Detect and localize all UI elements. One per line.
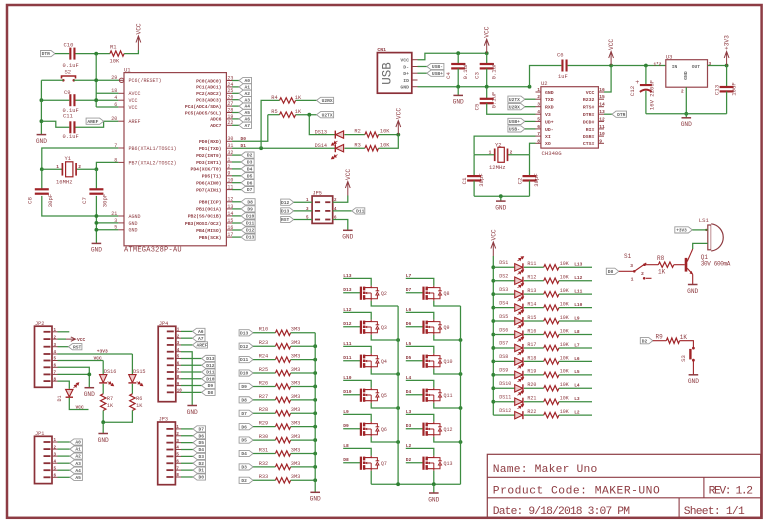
svg-text:ADC6: ADC6 <box>210 117 221 123</box>
svg-text:R11: R11 <box>527 261 536 267</box>
svg-text:18: 18 <box>111 88 117 94</box>
svg-text:PB6(XTAL1/TOSC1): PB6(XTAL1/TOSC1) <box>129 146 177 152</box>
switch S3 pushbutton <box>692 347 695 350</box>
svg-text:R29: R29 <box>259 421 269 427</box>
svg-text:D5: D5 <box>406 355 412 361</box>
junction <box>491 333 495 337</box>
transistor Q6 n-mosfet <box>360 423 362 436</box>
svg-text:D12: D12 <box>240 344 249 350</box>
wire <box>371 335 398 340</box>
svg-text:10K: 10K <box>560 315 569 321</box>
wire <box>524 320 544 322</box>
svg-text:A7: A7 <box>244 123 250 129</box>
resistor R32 3M3 <box>275 464 290 469</box>
svg-text:LS1: LS1 <box>699 217 710 224</box>
wire <box>96 222 118 224</box>
resistor R33 3M3 <box>275 478 290 483</box>
wire net VCC <box>69 398 88 410</box>
junction <box>528 85 532 89</box>
svg-text:12MHz: 12MHz <box>489 164 506 171</box>
LED DS16 <box>102 361 104 375</box>
svg-text:D10: D10 <box>343 389 352 395</box>
svg-text:4: 4 <box>114 95 117 101</box>
wire <box>333 210 352 212</box>
transistor Q10 n-mosfet <box>422 355 424 368</box>
power VCC <box>136 36 141 50</box>
svg-text:VCC: VCC <box>94 356 103 362</box>
svg-text:10K: 10K <box>380 129 390 135</box>
flag DTR <box>41 51 56 57</box>
svg-text:Y2: Y2 <box>495 142 502 149</box>
node D13 <box>181 357 202 359</box>
wire <box>619 270 635 272</box>
node D1 <box>181 469 193 471</box>
LED DS1 <box>493 266 514 268</box>
node D7 <box>232 189 241 191</box>
junction <box>307 113 311 117</box>
svg-text:Y1: Y1 <box>65 155 72 162</box>
svg-text:U2RX: U2RX <box>322 98 333 104</box>
junction <box>491 359 495 363</box>
svg-text:VCC: VCC <box>586 90 595 96</box>
wire net L13 <box>343 278 371 285</box>
junction <box>313 344 317 348</box>
svg-text:2: 2 <box>537 94 540 100</box>
svg-text:Date: 9/18/2018 3:07 PM: Date: 9/18/2018 3:07 PM <box>493 506 630 518</box>
wire <box>95 196 97 243</box>
resistor R27 3M3 <box>275 397 290 402</box>
svg-text:D6: D6 <box>247 180 253 186</box>
svg-text:L11: L11 <box>574 289 582 295</box>
svg-text:D3: D3 <box>406 423 412 429</box>
flag D2 <box>239 477 253 483</box>
svg-text:R3: R3 <box>354 142 360 148</box>
svg-text:L8: L8 <box>574 329 580 335</box>
svg-text:D4: D4 <box>241 451 247 457</box>
svg-text:AREF: AREF <box>87 119 98 125</box>
node D9 <box>181 385 202 387</box>
node AREF <box>181 344 193 346</box>
svg-text:D2: D2 <box>198 461 204 467</box>
wire <box>253 345 275 347</box>
wire <box>524 280 544 282</box>
svg-text:VCC: VCC <box>345 169 352 180</box>
svg-text:PC1(ADC1): PC1(ADC1) <box>196 85 222 91</box>
svg-text:PD7(AIN1): PD7(AIN1) <box>196 187 222 193</box>
svg-text:3: 3 <box>537 102 540 108</box>
wire <box>344 134 365 136</box>
svg-text:2: 2 <box>681 89 684 94</box>
wire <box>525 106 536 108</box>
svg-text:A0: A0 <box>75 440 81 446</box>
resistor R1 <box>110 51 124 56</box>
junction <box>459 372 463 376</box>
svg-text:L8: L8 <box>343 443 349 449</box>
LED DS15 <box>131 354 133 374</box>
svg-text:R8: R8 <box>657 255 665 262</box>
node A6 <box>181 330 193 332</box>
LED DS6 <box>493 334 514 336</box>
svg-text:PB2(SS/OC1B): PB2(SS/OC1B) <box>188 214 222 220</box>
svg-text:D8: D8 <box>247 199 253 205</box>
svg-text:U2TX: U2TX <box>509 97 520 103</box>
capacitor C6 <box>530 66 562 87</box>
flag D13 <box>239 330 253 336</box>
svg-text:JP2: JP2 <box>35 321 44 327</box>
svg-text:D11: D11 <box>246 221 255 227</box>
capacitor C5 <box>486 87 488 99</box>
svg-text:VCC: VCC <box>76 405 85 411</box>
resistor R11 10K <box>544 265 559 270</box>
wire net D6 <box>406 326 424 328</box>
resistor R7 <box>102 384 104 394</box>
wire <box>296 99 317 101</box>
title block <box>487 454 760 517</box>
svg-text:REV: 1.2: REV: 1.2 <box>709 486 753 498</box>
svg-text:S3: S3 <box>680 355 687 362</box>
svg-text:3M3: 3M3 <box>291 461 301 467</box>
svg-text:PB3(MOSI/OC2): PB3(MOSI/OC2) <box>185 221 222 227</box>
transistor Q3 n-mosfet <box>360 321 362 334</box>
junction <box>95 214 99 218</box>
wire <box>41 99 69 101</box>
svg-text:PB5(SCK): PB5(SCK) <box>199 235 222 241</box>
junction <box>456 51 460 55</box>
wire net D10 <box>343 394 361 396</box>
svg-text:2: 2 <box>510 150 513 156</box>
wire <box>76 99 119 101</box>
transistor Q5 n-mosfet <box>360 389 362 402</box>
wire net L4 <box>559 387 592 389</box>
transistor Q2 n-mosfet <box>360 287 362 300</box>
wire <box>371 301 398 306</box>
LED DS12 <box>493 414 514 416</box>
svg-text:1uF: 1uF <box>558 74 568 80</box>
svg-text:L5: L5 <box>574 369 580 375</box>
svg-text:10: 10 <box>599 131 605 137</box>
flag D7 <box>239 410 253 416</box>
svg-text:1K: 1K <box>107 403 114 409</box>
svg-text:PB7(XTAL2/TOSC2): PB7(XTAL2/TOSC2) <box>129 160 177 166</box>
svg-text:GND: GND <box>187 409 198 416</box>
junction <box>313 452 317 456</box>
svg-text:PD5(T1): PD5(T1) <box>202 174 222 180</box>
svg-text:3: 3 <box>709 62 712 67</box>
connector JP1 <box>35 436 53 483</box>
wire net D2 <box>406 462 424 464</box>
wire <box>76 121 119 127</box>
wire net L2 <box>406 448 434 455</box>
flag D8 <box>239 397 253 403</box>
wire net L3 <box>559 401 592 403</box>
flag D12 <box>239 343 253 349</box>
flag D2 <box>640 338 653 344</box>
svg-text:1K: 1K <box>680 334 688 341</box>
wire <box>524 266 544 268</box>
svg-text:R21: R21 <box>527 396 536 402</box>
junction <box>396 406 400 410</box>
svg-text:2: 2 <box>78 164 81 170</box>
junction <box>491 346 495 350</box>
svg-text:U2: U2 <box>541 80 548 87</box>
svg-text:R10: R10 <box>259 327 269 333</box>
wire net +3V3 <box>58 353 133 355</box>
wire <box>604 66 611 93</box>
wire <box>371 369 398 374</box>
resistor R14 10K <box>544 305 559 310</box>
svg-text:PD6(AIN0): PD6(AIN0) <box>196 181 222 187</box>
svg-text:USB+: USB+ <box>509 119 520 125</box>
flag USB+ <box>508 118 525 124</box>
svg-text:20: 20 <box>111 116 117 122</box>
svg-text:L2: L2 <box>406 443 412 449</box>
svg-text:DS1: DS1 <box>499 260 508 266</box>
svg-text:DS3: DS3 <box>499 287 508 293</box>
junction <box>396 338 400 342</box>
wire net L7 <box>406 278 434 285</box>
svg-text:D8: D8 <box>608 269 614 275</box>
wire <box>474 195 529 197</box>
svg-text:JP1: JP1 <box>35 431 44 437</box>
wire net D8 <box>343 462 361 464</box>
capacitor C4 <box>457 53 459 64</box>
node D10 <box>181 378 202 380</box>
junction <box>95 167 99 171</box>
svg-text:U2RX: U2RX <box>509 104 520 110</box>
svg-text:D13: D13 <box>206 356 215 362</box>
flag D5 <box>239 437 253 443</box>
svg-text:USB+: USB+ <box>432 71 443 77</box>
svg-text:RST: RST <box>281 217 290 223</box>
svg-text:14: 14 <box>599 102 605 108</box>
connector CN1 USB <box>377 53 411 94</box>
wire <box>680 341 694 348</box>
svg-text:D6: D6 <box>198 433 204 439</box>
wire <box>291 479 316 481</box>
svg-text:6: 6 <box>114 102 117 108</box>
svg-text:Product Code: MAKER-UNO: Product Code: MAKER-UNO <box>493 486 660 498</box>
svg-text:12: 12 <box>599 116 605 122</box>
svg-text:GND: GND <box>453 99 464 106</box>
svg-text:3M3: 3M3 <box>291 447 301 453</box>
wire net L5 <box>559 374 592 376</box>
svg-text:L6: L6 <box>574 356 580 362</box>
wire net D5 <box>406 360 424 362</box>
LED DS3 <box>493 293 514 295</box>
capacitor C1 <box>473 155 475 176</box>
svg-text:D2: D2 <box>406 457 412 463</box>
svg-text:R9: R9 <box>656 334 664 341</box>
svg-text:Q10: Q10 <box>444 359 453 365</box>
svg-text:R19: R19 <box>527 369 536 375</box>
svg-text:C12: C12 <box>629 85 636 96</box>
svg-text:L9: L9 <box>343 409 349 415</box>
node D4 <box>181 449 193 451</box>
svg-text:DCD#: DCD# <box>583 119 595 125</box>
node D12 <box>181 364 202 366</box>
connector JP3 <box>158 422 176 485</box>
svg-text:R30: R30 <box>259 434 269 440</box>
flag AREF <box>86 118 104 124</box>
resistor R31 3M3 <box>275 451 290 456</box>
svg-text:0.1uF: 0.1uF <box>63 134 79 140</box>
svg-text:15: 15 <box>599 94 605 100</box>
junction <box>40 119 44 123</box>
wire net L10 <box>559 307 592 309</box>
svg-text:GND: GND <box>98 437 109 444</box>
svg-text:OUT: OUT <box>692 64 701 70</box>
svg-text:1K: 1K <box>658 269 666 276</box>
op-amp U3 regulator <box>666 60 708 87</box>
wire <box>434 403 461 408</box>
svg-text:C3: C3 <box>474 72 481 79</box>
svg-text:10K: 10K <box>110 59 120 65</box>
svg-text:3M3: 3M3 <box>291 394 301 400</box>
svg-text:10K: 10K <box>560 302 569 308</box>
svg-text:Q7: Q7 <box>381 461 387 467</box>
svg-text:D1: D1 <box>57 395 63 401</box>
svg-text:R17: R17 <box>527 342 536 348</box>
svg-text:D8: D8 <box>208 390 214 396</box>
svg-text:Q5: Q5 <box>381 393 387 399</box>
svg-text:D13: D13 <box>343 287 352 293</box>
wire <box>102 422 104 433</box>
capacitor C8 <box>41 169 43 189</box>
wire <box>333 196 348 203</box>
svg-text:ADC7: ADC7 <box>210 123 221 129</box>
resistor R6 <box>131 384 133 394</box>
power VCC <box>484 39 489 53</box>
node A1 <box>58 448 70 450</box>
svg-text:VCC: VCC <box>484 26 491 37</box>
wire <box>524 401 544 403</box>
svg-text:D12: D12 <box>246 228 255 234</box>
junction <box>40 167 44 171</box>
svg-text:GND: GND <box>683 71 689 80</box>
resistor R2 <box>365 132 379 137</box>
svg-text:DS2: DS2 <box>499 274 508 280</box>
svg-text:L5: L5 <box>406 341 412 347</box>
svg-text:D3: D3 <box>241 465 247 471</box>
svg-text:PC6(/RESET): PC6(/RESET) <box>129 78 162 84</box>
capacitor C9 <box>69 94 71 106</box>
resistor R17 10K <box>544 345 559 350</box>
svg-text:R7: R7 <box>107 396 113 402</box>
svg-text:R14: R14 <box>527 302 536 308</box>
flag D11 <box>352 208 365 214</box>
resistor R29 3M3 <box>275 424 290 429</box>
LED DS7 <box>493 347 514 349</box>
wire <box>96 162 118 169</box>
resistor R12 10K <box>544 278 559 283</box>
ground <box>310 491 320 493</box>
svg-text:GND: GND <box>495 204 506 211</box>
wire <box>291 466 316 468</box>
flag USB+ <box>418 72 427 74</box>
wire net L5 <box>406 346 434 353</box>
ground <box>85 387 95 389</box>
svg-text:C1: C1 <box>461 177 468 184</box>
svg-text:3M3: 3M3 <box>291 434 301 440</box>
svg-text:C8: C8 <box>27 197 34 204</box>
power +3V3 <box>724 52 729 66</box>
wire <box>296 114 317 116</box>
svg-text:A5: A5 <box>244 110 250 116</box>
svg-text:R22: R22 <box>527 409 536 415</box>
svg-text:D2: D2 <box>642 338 648 344</box>
svg-text:VCC: VCC <box>129 105 138 111</box>
svg-text:3M3: 3M3 <box>291 421 301 427</box>
svg-text:GND: GND <box>84 391 95 398</box>
svg-text:PC2(ADC2): PC2(ADC2) <box>196 91 222 97</box>
svg-text:C2: C2 <box>516 177 523 184</box>
flag D8 <box>606 268 619 274</box>
svg-text:3M3: 3M3 <box>291 407 301 413</box>
transistor Q8 n-mosfet <box>422 287 424 300</box>
wire net L9 <box>343 414 371 421</box>
power VCC <box>345 182 350 196</box>
svg-text:R5: R5 <box>271 109 277 115</box>
svg-text:Q4: Q4 <box>381 359 387 365</box>
wire <box>379 135 399 149</box>
svg-text:D4: D4 <box>198 447 204 453</box>
wire bus <box>492 256 494 415</box>
svg-text:U3: U3 <box>666 53 673 60</box>
wire <box>253 359 275 361</box>
resistor R13 10K <box>544 291 559 296</box>
svg-text:D13: D13 <box>281 209 290 215</box>
wire <box>524 414 544 416</box>
svg-text:C5: C5 <box>474 103 481 110</box>
svg-text:4: 4 <box>537 109 540 115</box>
svg-text:2: 2 <box>641 271 644 277</box>
LED DS5 <box>493 320 514 322</box>
node D3 <box>181 455 193 457</box>
wire <box>646 113 727 115</box>
svg-text:D4: D4 <box>406 389 412 395</box>
junction <box>456 85 460 89</box>
svg-text:PC3(ADC3): PC3(ADC3) <box>196 98 222 104</box>
svg-text:A5: A5 <box>75 475 81 481</box>
wire <box>253 412 275 414</box>
svg-text:D13: D13 <box>240 330 249 336</box>
svg-text:Q12: Q12 <box>444 427 453 433</box>
resistor R19 10K <box>544 372 559 377</box>
svg-text:3: 3 <box>114 218 117 224</box>
junction <box>491 386 495 390</box>
wire <box>370 471 372 484</box>
svg-text:D10: D10 <box>246 214 255 220</box>
svg-text:AVCC: AVCC <box>129 91 141 97</box>
svg-text:R232: R232 <box>583 97 595 103</box>
wire <box>525 128 536 130</box>
svg-text:0.1uF: 0.1uF <box>490 92 497 109</box>
flag D3 <box>239 464 253 470</box>
resistor R20 10K <box>544 386 559 391</box>
svg-text:16V 220uF: 16V 220uF <box>649 80 656 110</box>
svg-text:D6: D6 <box>406 321 412 327</box>
svg-text:+3V3: +3V3 <box>676 229 687 234</box>
wire <box>418 53 487 60</box>
svg-text:C13: C13 <box>714 84 721 95</box>
svg-text:3M3: 3M3 <box>291 367 301 373</box>
junction <box>95 221 99 225</box>
svg-text:VCC: VCC <box>135 23 142 34</box>
wire bus <box>397 306 399 484</box>
svg-text:VCC: VCC <box>77 337 86 343</box>
svg-text:AREF: AREF <box>196 343 207 349</box>
wire bus <box>314 333 316 492</box>
